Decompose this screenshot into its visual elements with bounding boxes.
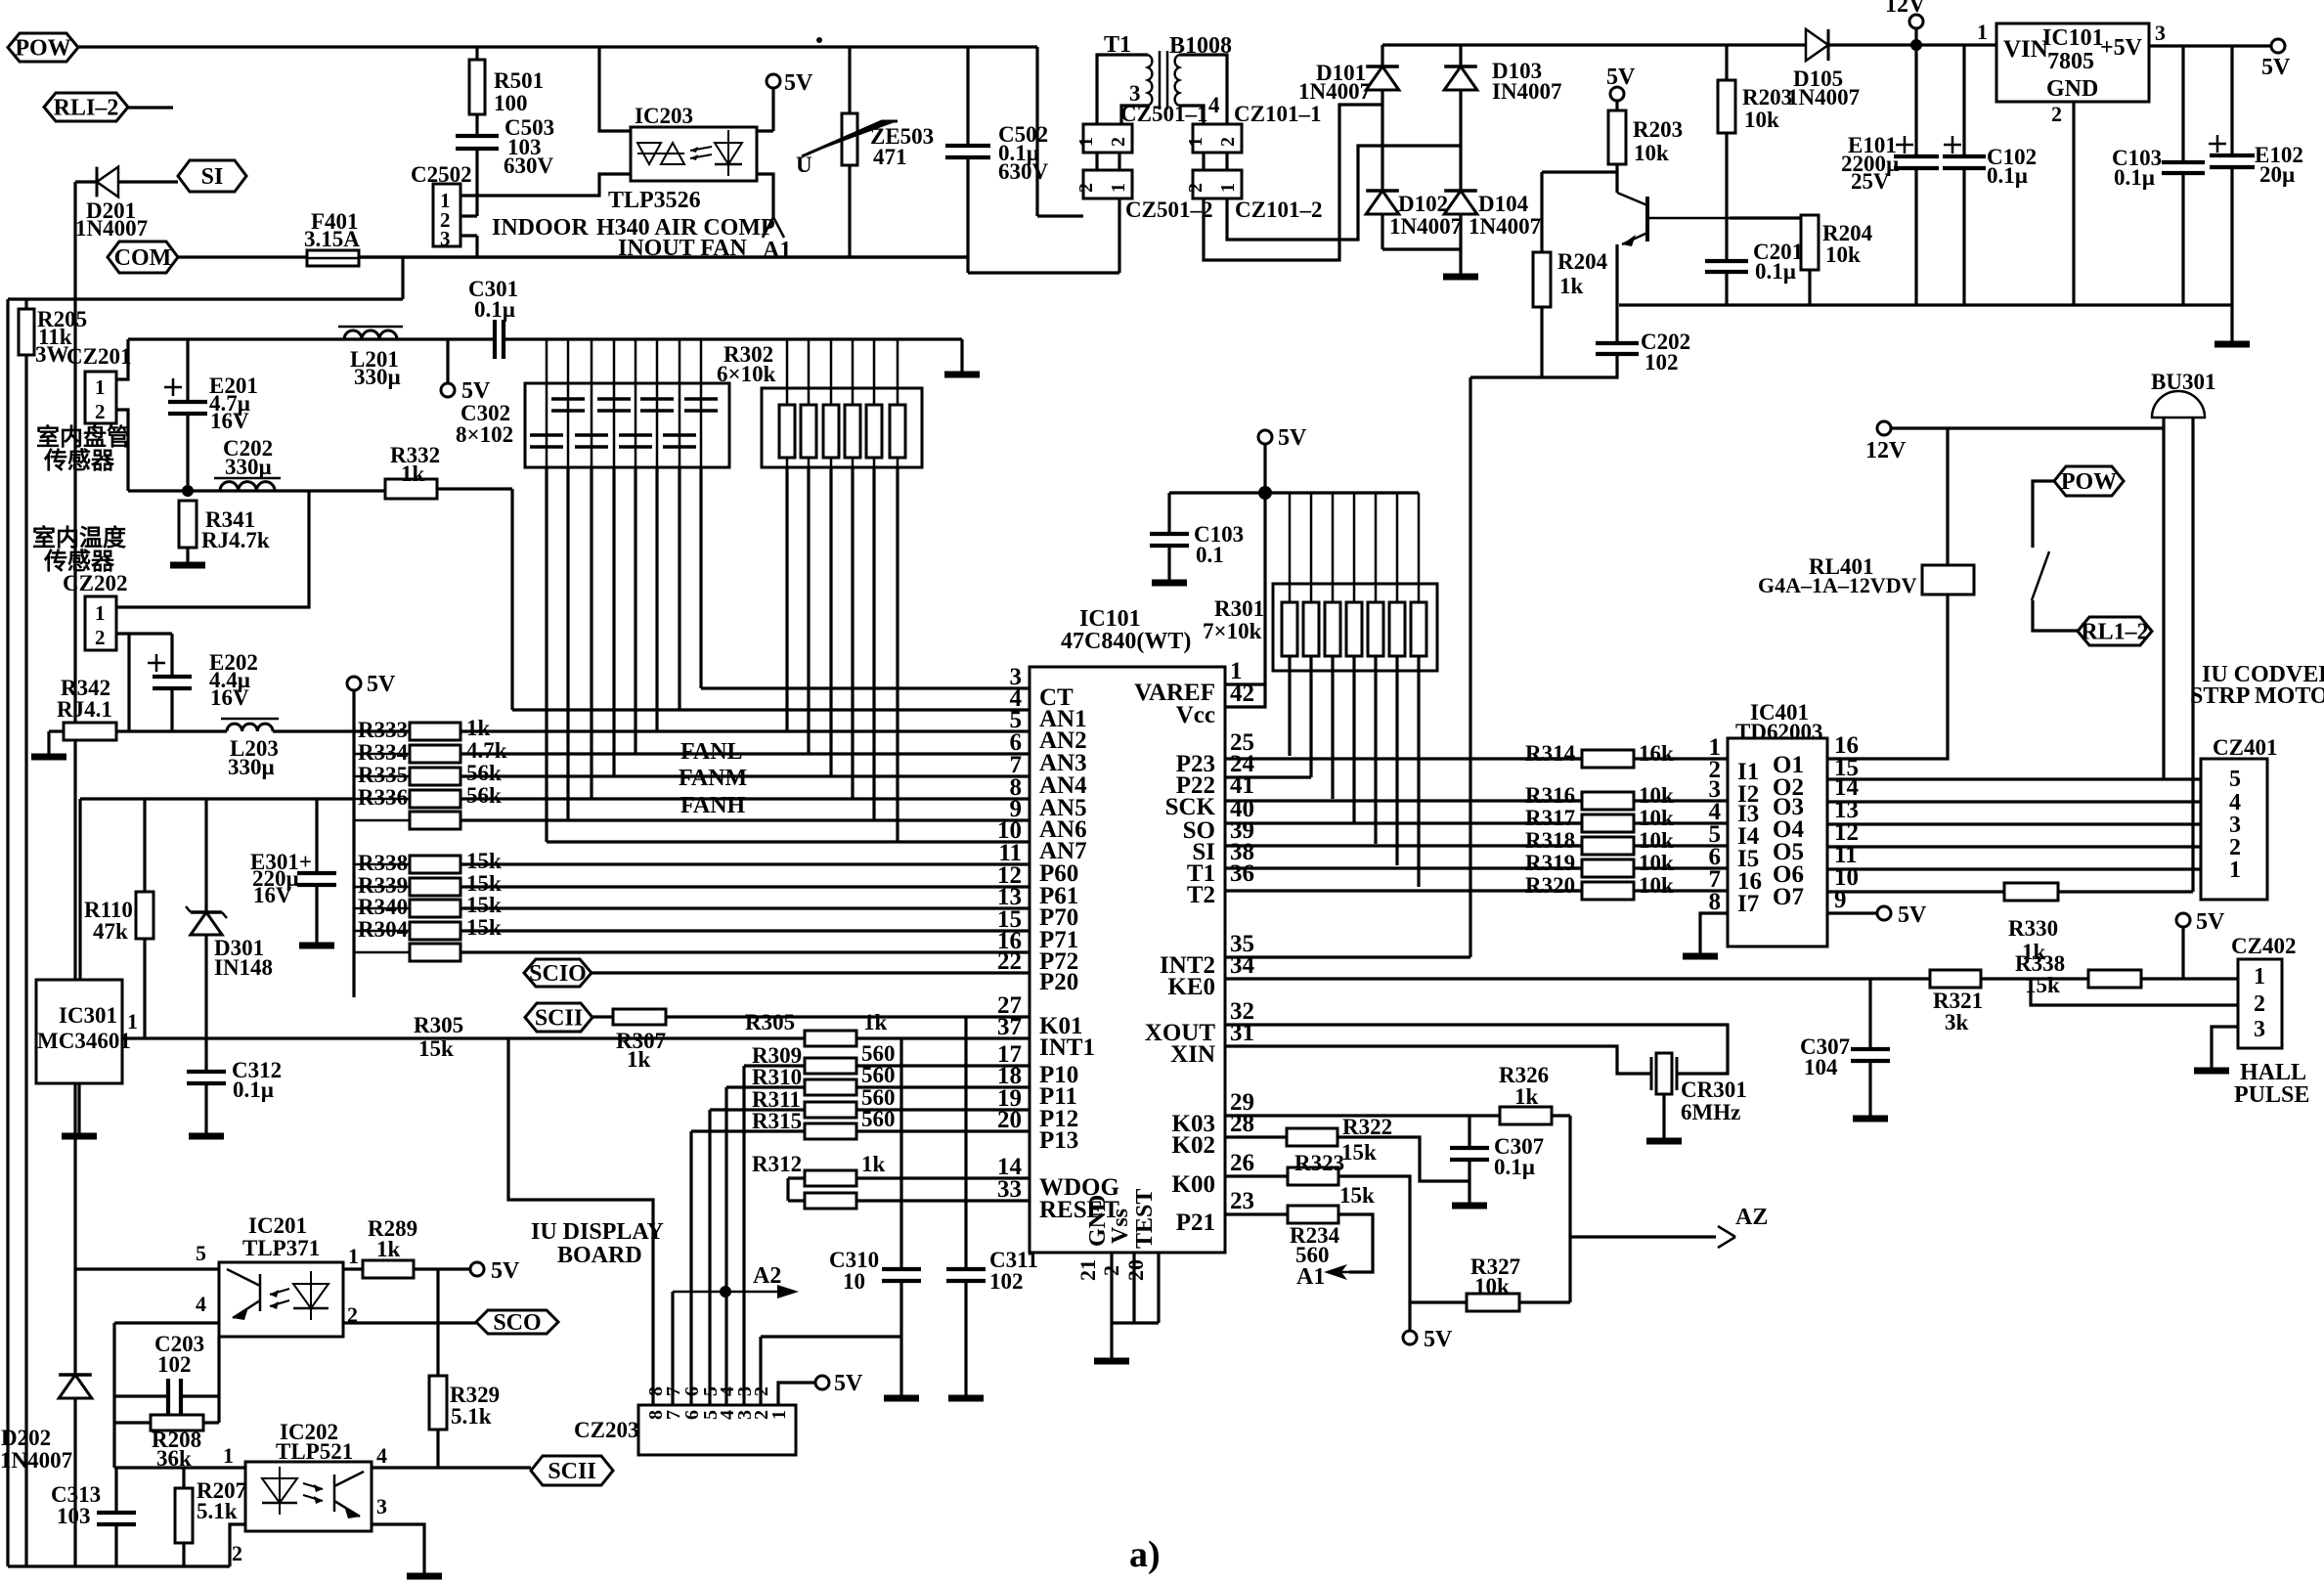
wire bbox=[1525, 866, 1582, 869]
resistor R289 bbox=[363, 1260, 414, 1278]
ground IC202 bbox=[407, 1573, 442, 1580]
wire R323 out wire bbox=[1338, 1176, 1410, 1302]
svg-text:1: 1 bbox=[2229, 858, 2241, 883]
svg-text:4: 4 bbox=[196, 1292, 206, 1316]
svg-text:BOARD: BOARD bbox=[557, 1243, 642, 1268]
wire K02 line bbox=[1225, 1135, 1287, 1138]
IC203 arrows bbox=[690, 147, 712, 158]
svg-text:2: 2 bbox=[95, 626, 106, 649]
wire XOUT wire bbox=[1225, 1025, 1728, 1074]
ground CZ402 bbox=[2194, 1068, 2229, 1075]
svg-text:R314: R314 bbox=[1525, 741, 1576, 766]
svg-text:室内盘管: 室内盘管 bbox=[36, 423, 130, 451]
svg-text:56k: 56k bbox=[466, 761, 502, 785]
resistor R313 bbox=[805, 1193, 856, 1209]
svg-text:1: 1 bbox=[1217, 183, 1239, 193]
svg-text:COM: COM bbox=[114, 245, 172, 271]
wire CZ201 pin2 wire bbox=[116, 410, 128, 491]
capacitor C202 bbox=[1596, 343, 1639, 354]
wire pin line bbox=[460, 950, 1030, 953]
resistor R315 bbox=[805, 1123, 856, 1139]
flag RLI-2 bbox=[44, 93, 128, 121]
resistor R208 bbox=[151, 1415, 203, 1430]
svg-text:Vcc: Vcc bbox=[1176, 702, 1215, 728]
svg-text:5V: 5V bbox=[367, 672, 396, 697]
wire E201 bottom wire bbox=[186, 414, 189, 491]
flag SCO bbox=[476, 1310, 558, 1334]
svg-text:2: 2 bbox=[1185, 183, 1206, 193]
wire CZ202 pin2 drop bbox=[127, 634, 130, 731]
resistor R329 bbox=[429, 1376, 447, 1430]
wire CZ203 pin7 wire bbox=[671, 1292, 674, 1405]
wire O7 wire bbox=[1827, 890, 2004, 893]
wire C103 stem bbox=[1167, 546, 1170, 581]
svg-text:Vss: Vss bbox=[1108, 1209, 1133, 1244]
svg-text:R340: R340 bbox=[358, 895, 408, 919]
wire bbox=[635, 339, 637, 383]
svg-text:560: 560 bbox=[861, 1063, 896, 1087]
wire CZ402 pin2 wire bbox=[2031, 979, 2238, 1005]
wire SO line bbox=[1225, 821, 1584, 824]
wire pin3 to COM bbox=[475, 236, 478, 257]
resistor R310 bbox=[805, 1079, 856, 1095]
svg-text:47C840(WT): 47C840(WT) bbox=[1061, 629, 1191, 654]
wire E102 bottom wire bbox=[2230, 167, 2233, 305]
wire R205 top stub bbox=[24, 299, 27, 309]
wire R309 drop wire bbox=[742, 1066, 745, 1405]
wire T2 line bbox=[1225, 889, 1584, 892]
svg-text:I7: I7 bbox=[1737, 891, 1759, 917]
svg-text:1k: 1k bbox=[466, 716, 491, 740]
svg-text:R319: R319 bbox=[1525, 851, 1575, 875]
wire cap drop 6 bbox=[655, 467, 658, 731]
flag SCII upper bbox=[525, 1003, 592, 1032]
wire bbox=[354, 886, 410, 889]
microcontroller IC101 bbox=[1030, 667, 1225, 1253]
wire bbox=[546, 339, 548, 383]
wire C312 gnd stem bbox=[204, 1083, 207, 1134]
svg-text:FANH: FANH bbox=[680, 793, 746, 818]
svg-text:1N4007: 1N4007 bbox=[1469, 214, 1541, 239]
svg-text:12V: 12V bbox=[1865, 438, 1907, 463]
wire bbox=[808, 458, 811, 467]
wire E102 top wire bbox=[2230, 46, 2233, 155]
zener diode D301 bbox=[191, 910, 222, 914]
wire R301 drop bbox=[1331, 656, 1334, 799]
wire C2502 pin3 wire bbox=[460, 234, 477, 237]
connector CZ101-1 bbox=[1193, 124, 1242, 153]
svg-text:SCK: SCK bbox=[1165, 794, 1216, 820]
wire bbox=[679, 339, 681, 383]
svg-text:D104: D104 bbox=[1478, 192, 1529, 216]
svg-text:100: 100 bbox=[494, 91, 528, 115]
svg-text:R312: R312 bbox=[752, 1152, 802, 1176]
svg-text:R335: R335 bbox=[358, 763, 408, 787]
wire rail ground stem bbox=[960, 339, 963, 373]
wire D103 top bbox=[1459, 45, 1462, 66]
wire R312 pair link bbox=[786, 1178, 789, 1201]
wire pin line bbox=[460, 929, 1030, 932]
opto-coupler IC201 bbox=[219, 1262, 343, 1337]
svg-text:0.1: 0.1 bbox=[1196, 543, 1224, 567]
svg-text:1: 1 bbox=[1075, 137, 1097, 147]
svg-text:AZ: AZ bbox=[1735, 1205, 1768, 1230]
wire C311 gnd stem bbox=[964, 1281, 967, 1396]
wire bbox=[1525, 821, 1582, 824]
wire CZ402 pin3 wire bbox=[2212, 1027, 2238, 1069]
wire 5V stem bbox=[771, 88, 774, 131]
wire R208 left wire bbox=[114, 1421, 151, 1424]
terminal 5V R203 bbox=[1610, 87, 1624, 101]
wire bbox=[1634, 799, 1728, 802]
wire O3 wire bbox=[1827, 800, 2201, 803]
svg-text:XIN: XIN bbox=[1170, 1041, 1215, 1068]
ground C103 bbox=[1152, 580, 1187, 587]
svg-text:STRP MOTOR: STRP MOTOR bbox=[2190, 683, 2324, 709]
svg-text:8: 8 bbox=[1709, 889, 1722, 915]
terminal 5V CZ402 bbox=[2176, 913, 2190, 927]
svg-text:R305: R305 bbox=[745, 1010, 795, 1034]
resistor R334 bbox=[410, 745, 460, 763]
wire bbox=[873, 458, 876, 467]
svg-text:10: 10 bbox=[843, 1269, 865, 1294]
resistor R336 bbox=[410, 790, 460, 808]
svg-text:R334: R334 bbox=[358, 740, 409, 765]
wire bbox=[1310, 493, 1313, 602]
wire C310 gnd stem bbox=[899, 1281, 902, 1396]
wire CZ201 pin1 wire bbox=[116, 339, 128, 379]
svg-text:5V: 5V bbox=[1278, 425, 1307, 451]
wire C202 to INT2 vertical bbox=[1469, 377, 1471, 957]
wire AZ wire bbox=[1570, 1235, 1716, 1238]
wire C102 bottom wire bbox=[1962, 168, 1965, 305]
svg-text:1: 1 bbox=[95, 375, 106, 399]
capacitor C311 bbox=[946, 1269, 986, 1281]
svg-text:1: 1 bbox=[223, 1443, 234, 1468]
svg-text:37: 37 bbox=[997, 1014, 1022, 1040]
wire INT1 line bbox=[122, 1036, 1030, 1039]
wire AN1 line bbox=[512, 708, 1030, 711]
inductor L202 bbox=[220, 482, 275, 491]
svg-text:3.15A: 3.15A bbox=[304, 227, 360, 251]
wire cap wire2 bbox=[566, 467, 569, 820]
svg-text:CZ201: CZ201 bbox=[66, 344, 131, 369]
svg-text:1N4007: 1N4007 bbox=[0, 1448, 72, 1473]
svg-text:IU DISPLAY: IU DISPLAY bbox=[531, 1219, 664, 1245]
wire bbox=[1525, 844, 1582, 847]
wire bbox=[1634, 866, 1728, 869]
wire Vss stem bbox=[1132, 1253, 1135, 1323]
svg-text:5.1k: 5.1k bbox=[451, 1404, 492, 1429]
wire R322 out wire bbox=[1337, 1137, 1469, 1181]
wire 5V stub bbox=[1408, 1302, 1411, 1331]
wire left vertical 2 bbox=[24, 355, 27, 1566]
svg-text:21: 21 bbox=[1075, 1259, 1100, 1281]
connector CZ203 bbox=[638, 1405, 796, 1455]
wire R302 drop bbox=[872, 467, 875, 820]
svg-text:0.1µ: 0.1µ bbox=[474, 297, 515, 322]
wire C310 top wire bbox=[899, 1038, 902, 1269]
resistor R205 bbox=[19, 309, 34, 355]
resistor R330 bbox=[2004, 883, 2058, 901]
resistor R110 bbox=[136, 892, 153, 939]
svg-text:1k: 1k bbox=[376, 1237, 401, 1261]
transformer B1008 secondary winding bbox=[1175, 55, 1179, 106]
wire base-R204 wire bbox=[1542, 170, 1617, 173]
wire P23 line bbox=[1225, 757, 1582, 760]
svg-text:R204: R204 bbox=[1557, 249, 1608, 274]
svg-text:P20: P20 bbox=[1039, 969, 1078, 995]
regulator IC101 7805 bbox=[1996, 23, 2149, 102]
svg-text:330µ: 330µ bbox=[228, 755, 275, 779]
svg-text:15k: 15k bbox=[418, 1036, 454, 1061]
svg-text:0.1µ: 0.1µ bbox=[2114, 165, 2155, 190]
svg-text:CR301: CR301 bbox=[1681, 1078, 1747, 1102]
wire WDOG line bbox=[856, 1176, 1030, 1179]
wire GND stem bbox=[1110, 1253, 1113, 1359]
wire CZ203 pin1 to 5V bbox=[778, 1383, 815, 1405]
wire D202 bottom wire bbox=[73, 1398, 76, 1566]
svg-text:1k: 1k bbox=[863, 1010, 888, 1034]
svg-text:330µ: 330µ bbox=[225, 455, 272, 479]
connector C2502 bbox=[433, 184, 460, 246]
wire CR301 gnd stem bbox=[1662, 1094, 1665, 1139]
capacitor E301 bbox=[297, 873, 336, 885]
wire pin line bbox=[460, 862, 1030, 865]
junction 12V bbox=[1910, 39, 1922, 51]
wire pin line R310 bbox=[856, 1085, 1030, 1088]
wire bbox=[354, 798, 410, 801]
wire C312 top wire bbox=[204, 1038, 207, 1072]
wire R302 drop bbox=[829, 467, 832, 776]
svg-text:22: 22 bbox=[997, 948, 1022, 975]
wire SCII wire bbox=[372, 1466, 531, 1469]
svg-text:RLI–2: RLI–2 bbox=[54, 96, 119, 121]
resistor array R302 box bbox=[762, 388, 922, 467]
svg-text:1: 1 bbox=[95, 601, 106, 625]
svg-text:FANL: FANL bbox=[680, 739, 743, 765]
resistor R321 bbox=[1930, 970, 1981, 988]
wire C307 top wire bbox=[1868, 979, 1871, 1049]
capacitor E202 bbox=[153, 677, 192, 688]
wire C203 left wire bbox=[114, 1394, 168, 1397]
wire pin1 wire bbox=[343, 1267, 363, 1270]
wire bbox=[700, 339, 703, 383]
wire TEST stem bbox=[1157, 1253, 1160, 1323]
wire sensor line bbox=[128, 489, 385, 492]
wire R321 out bbox=[1981, 977, 2031, 980]
wire P21 line bbox=[1225, 1212, 1288, 1215]
svg-text:20µ: 20µ bbox=[2259, 162, 2295, 187]
wire bbox=[591, 339, 593, 383]
svg-text:INDOOR: INDOOR bbox=[492, 215, 589, 241]
wire pin line R315 bbox=[856, 1129, 1030, 1132]
diode D102 bbox=[1366, 189, 1399, 193]
wire RLI-2 stub bbox=[128, 106, 173, 109]
resistor in R302 bbox=[845, 405, 860, 458]
wire COM wire bbox=[178, 255, 403, 258]
wire bbox=[2031, 977, 2088, 980]
wire R330 out wire bbox=[2058, 890, 2193, 893]
svg-text:16V: 16V bbox=[210, 685, 249, 710]
resistor R332 bbox=[385, 479, 437, 499]
flag SI bbox=[178, 160, 246, 192]
svg-text:D202: D202 bbox=[1, 1426, 51, 1450]
wire bbox=[1525, 889, 1582, 892]
transistor Q201 bbox=[1617, 193, 1647, 205]
wire D101 top bbox=[1381, 45, 1383, 66]
wire IC201 pin4 wire bbox=[114, 1321, 219, 1324]
wire bbox=[1375, 493, 1378, 602]
wire CZ202 pin1 wire bbox=[116, 491, 309, 607]
svg-text:R330: R330 bbox=[2008, 916, 2058, 941]
wire CZ203 pin2 stub bbox=[759, 1337, 762, 1405]
wire BU301 right leg bbox=[2191, 418, 2194, 892]
svg-text:传感器: 传感器 bbox=[43, 447, 115, 474]
svg-text:102: 102 bbox=[989, 1269, 1024, 1294]
wire lower COM rail bbox=[8, 297, 403, 300]
wire R326 down wire bbox=[1568, 1116, 1571, 1302]
wire C307b stem bbox=[1468, 1160, 1470, 1204]
connector CZ501-2 bbox=[1083, 170, 1132, 198]
wire CZ501 loop rail bbox=[968, 271, 1119, 274]
svg-text:SCII: SCII bbox=[535, 1006, 583, 1032]
svg-text:6MHz: 6MHz bbox=[1681, 1100, 1740, 1124]
capacitor array C302 box bbox=[525, 383, 729, 467]
svg-text:PULSE: PULSE bbox=[2234, 1082, 2309, 1108]
op-amp IC301 bbox=[36, 980, 122, 1083]
resistor bbox=[410, 812, 460, 829]
terminal A1 arrow bbox=[1328, 1271, 1349, 1274]
wire C103 top wire bbox=[1167, 493, 1170, 534]
resistor R311 bbox=[805, 1102, 856, 1118]
svg-text:3: 3 bbox=[376, 1494, 387, 1518]
wire CZ202 pin2 wire bbox=[116, 632, 172, 635]
svg-text:102: 102 bbox=[1644, 350, 1679, 374]
svg-text:SCII: SCII bbox=[548, 1459, 595, 1484]
svg-text:IC203: IC203 bbox=[635, 104, 693, 128]
wire top rail drop bbox=[1035, 47, 1038, 216]
svg-text:26: 26 bbox=[1230, 1150, 1254, 1176]
svg-text:5.1k: 5.1k bbox=[197, 1499, 238, 1523]
wire resistor rail bbox=[352, 690, 355, 997]
capacitor C301 bbox=[495, 320, 504, 359]
wire AN2 line left a bbox=[116, 729, 227, 732]
svg-text:25V: 25V bbox=[1851, 169, 1890, 194]
capacitor C103 right bbox=[2162, 162, 2205, 173]
wire AN7 line bbox=[547, 840, 1030, 843]
connector CZ201 bbox=[85, 372, 116, 423]
wire bbox=[873, 339, 876, 405]
wire O5 wire bbox=[1827, 845, 2201, 848]
wire bbox=[1353, 493, 1356, 602]
svg-text:R305: R305 bbox=[414, 1013, 463, 1037]
wire C102 top wire bbox=[1962, 45, 1965, 156]
svg-text:33: 33 bbox=[997, 1176, 1022, 1203]
wire bbox=[354, 819, 410, 822]
wire R110 bottom wire bbox=[143, 939, 146, 1038]
wire K00 line bbox=[1225, 1174, 1288, 1177]
wire C2502 pin2 wire bbox=[460, 214, 477, 217]
ground C312 bbox=[189, 1133, 224, 1140]
wire bbox=[354, 907, 410, 910]
svg-text:5V: 5V bbox=[491, 1258, 520, 1284]
wire bbox=[788, 1199, 805, 1202]
wire IC301 top stub bbox=[78, 799, 81, 980]
wire CZ101 link2 bbox=[1225, 153, 1228, 170]
resistor R341 bbox=[179, 501, 197, 548]
wire bbox=[852, 458, 855, 467]
IC203 photodiode bbox=[715, 143, 742, 164]
terminal 12V bbox=[1909, 15, 1923, 28]
connector CZ401 bbox=[2201, 759, 2267, 900]
capacitor C102 bbox=[1943, 156, 1986, 168]
svg-text:104: 104 bbox=[1804, 1055, 1838, 1079]
wire VCC rail bbox=[1169, 491, 1419, 494]
ground CR301 bbox=[1646, 1138, 1682, 1145]
svg-text:5V: 5V bbox=[1898, 902, 1927, 928]
svg-text:SI: SI bbox=[201, 164, 224, 190]
svg-text:0.1µ: 0.1µ bbox=[233, 1078, 274, 1102]
wire pin line bbox=[460, 752, 1030, 755]
ZE503 diagonal bbox=[802, 121, 898, 156]
svg-text:1: 1 bbox=[768, 1410, 790, 1420]
diode D103 bbox=[1444, 65, 1477, 68]
wire band bottom rail bbox=[403, 255, 968, 258]
resistor R203 right bbox=[1718, 80, 1735, 133]
svg-text:10k: 10k bbox=[1639, 851, 1674, 875]
svg-text:K00: K00 bbox=[1172, 1171, 1215, 1198]
svg-text:CZ501–2: CZ501–2 bbox=[1125, 198, 1212, 222]
svg-text:15k: 15k bbox=[466, 893, 502, 917]
svg-text:23: 23 bbox=[1230, 1188, 1254, 1214]
resistor R314 bbox=[1582, 750, 1634, 768]
wire C307b top wire bbox=[1468, 1116, 1470, 1148]
resistor R305 bbox=[805, 1031, 856, 1046]
svg-text:R304: R304 bbox=[358, 917, 409, 942]
resistor R309 bbox=[805, 1058, 856, 1074]
svg-text:1: 1 bbox=[127, 1009, 138, 1034]
resistor R340 bbox=[410, 900, 460, 917]
resistor R304 bbox=[410, 922, 460, 940]
svg-text:1: 1 bbox=[1108, 183, 1129, 193]
wire right ground stem bbox=[2230, 305, 2233, 342]
svg-text:U: U bbox=[796, 153, 812, 177]
diode D202 bbox=[59, 1373, 92, 1377]
svg-text:1: 1 bbox=[2254, 964, 2265, 990]
resistor in R301 bbox=[1325, 602, 1340, 656]
wire RESET line bbox=[856, 1199, 1030, 1202]
svg-text:47k: 47k bbox=[93, 919, 128, 944]
svg-text:5V: 5V bbox=[2261, 55, 2291, 80]
wire 5V stub bbox=[446, 339, 449, 383]
svg-text:a): a) bbox=[1129, 1534, 1161, 1575]
wire R311 drop wire bbox=[708, 1110, 711, 1405]
terminal 5V R327 bbox=[1403, 1331, 1417, 1344]
ground rail bbox=[944, 372, 980, 378]
driver IC401 bbox=[1728, 738, 1827, 946]
flag COM bbox=[108, 242, 178, 273]
flag POW bbox=[8, 33, 78, 62]
svg-text:VIN: VIN bbox=[2003, 36, 2048, 63]
wire E101 top wire bbox=[1914, 45, 1917, 156]
svg-text:SCIO: SCIO bbox=[529, 961, 587, 987]
wire C502 bottom wire bbox=[966, 157, 969, 273]
svg-text:R310: R310 bbox=[752, 1065, 802, 1089]
svg-text:TEST: TEST bbox=[1132, 1189, 1158, 1249]
wire CZ501-2 down wire bbox=[1118, 198, 1120, 273]
IC202 transistor bbox=[334, 1472, 364, 1517]
